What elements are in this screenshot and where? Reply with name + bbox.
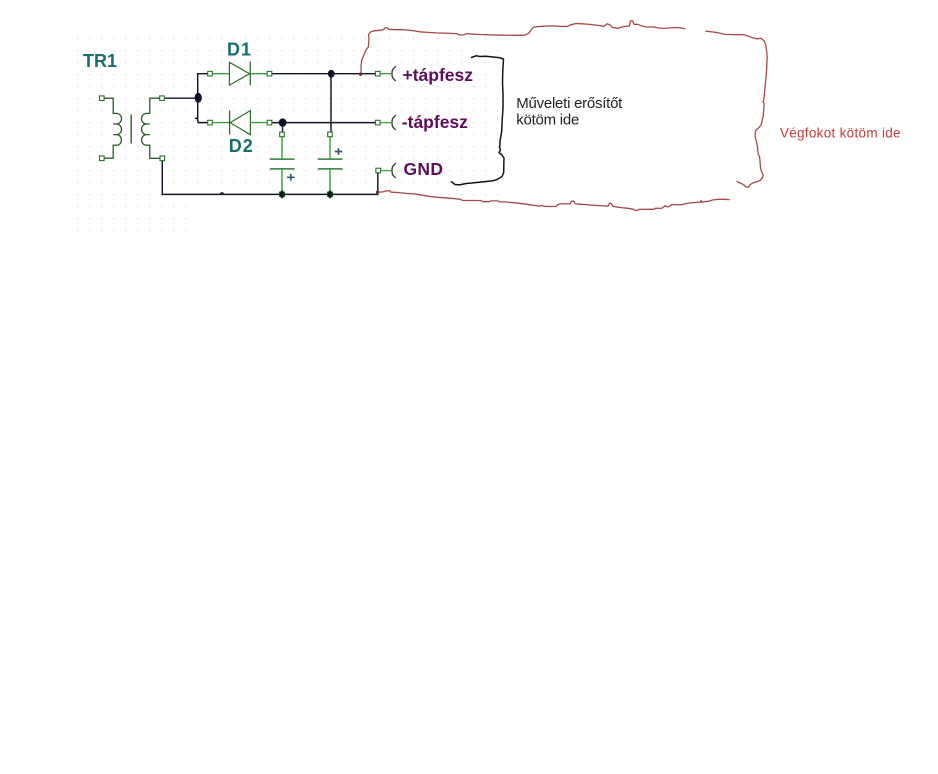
stub flag at D2 wire corner <box>194 116 198 119</box>
hand-drawn black bracket around supply terminals <box>451 56 504 185</box>
junction -rail / C1 <box>279 118 287 126</box>
red ink blob where line meets wire <box>359 73 362 76</box>
wire TR1 secondary top to node A <box>165 97 198 99</box>
ground rail wire <box>162 161 377 195</box>
terminal stub GND <box>380 170 391 172</box>
diode D1 <box>212 62 267 86</box>
pin square D1 cathode <box>267 71 272 76</box>
svg-text:D2: D2 <box>229 136 254 156</box>
pin square C2 top <box>328 132 333 137</box>
junction ground / C1 <box>278 190 286 199</box>
C2 plus mark <box>335 148 343 155</box>
hand-drawn red region outline (Végfokot kötöm ide) <box>361 21 685 75</box>
capacitor C1 <box>270 137 295 192</box>
svg-text:kötöm ide: kötöm ide <box>516 112 579 129</box>
grid dot area (editor background) <box>76 32 502 200</box>
pin square D2 cathode <box>208 120 213 125</box>
pin square TR1 primary top <box>100 96 105 101</box>
pin square D2 anode <box>267 120 272 125</box>
svg-text:GND: GND <box>404 159 444 179</box>
wire -rail down to C1 <box>282 123 284 133</box>
transformer TR1 <box>102 98 163 158</box>
pin square terminal +tapfesz <box>376 71 381 76</box>
svg-text:Műveleti erősítőt: Műveleti erősítőt <box>516 95 623 112</box>
svg-text:TR1: TR1 <box>83 51 117 71</box>
svg-text:-tápfesz: -tápfesz <box>402 112 468 132</box>
TR1 core <box>130 115 132 144</box>
pin square C2 bottom <box>328 192 333 197</box>
svg-text:D1: D1 <box>227 40 252 60</box>
wire node A up to D1 anode <box>198 74 208 99</box>
svg-text:Végfokot kötöm ide: Végfokot kötöm ide <box>780 125 901 140</box>
pin square C1 top <box>280 132 285 137</box>
red region bottom edge <box>378 191 729 211</box>
TR1 secondary coil <box>142 98 163 158</box>
wire +rail down to C2 <box>330 74 332 133</box>
junction node A <box>195 93 202 103</box>
rail blemish mark <box>220 193 224 194</box>
red ink blob at ground corner <box>376 191 379 194</box>
terminal stub -tapfesz <box>380 122 391 124</box>
pin square terminal -tapfesz <box>376 120 381 125</box>
red region top-right and right edge <box>706 31 767 187</box>
junction +rail / C2 <box>328 70 335 78</box>
diode D2 <box>212 110 267 134</box>
pin square D1 anode <box>208 71 213 76</box>
pin square terminal GND <box>376 168 381 173</box>
wire D1 cathode to +tapfesz rail <box>272 73 376 75</box>
wire node A down to D2 <box>198 98 208 122</box>
TR1 primary coil <box>102 98 122 158</box>
pin square TR1 secondary bottom <box>160 156 165 161</box>
capacitor C2 <box>318 137 343 192</box>
C1 plus mark <box>287 174 295 181</box>
wire D2 to -tapfesz rail <box>272 122 376 124</box>
pin square TR1 secondary top <box>160 96 165 101</box>
pin square C1 bottom <box>280 192 285 197</box>
pin square TR1 primary bottom <box>100 156 105 161</box>
svg-text:+tápfesz: +tápfesz <box>403 65 474 85</box>
terminal stub +tapfesz <box>380 73 391 75</box>
junction ground / C2 <box>326 190 334 199</box>
